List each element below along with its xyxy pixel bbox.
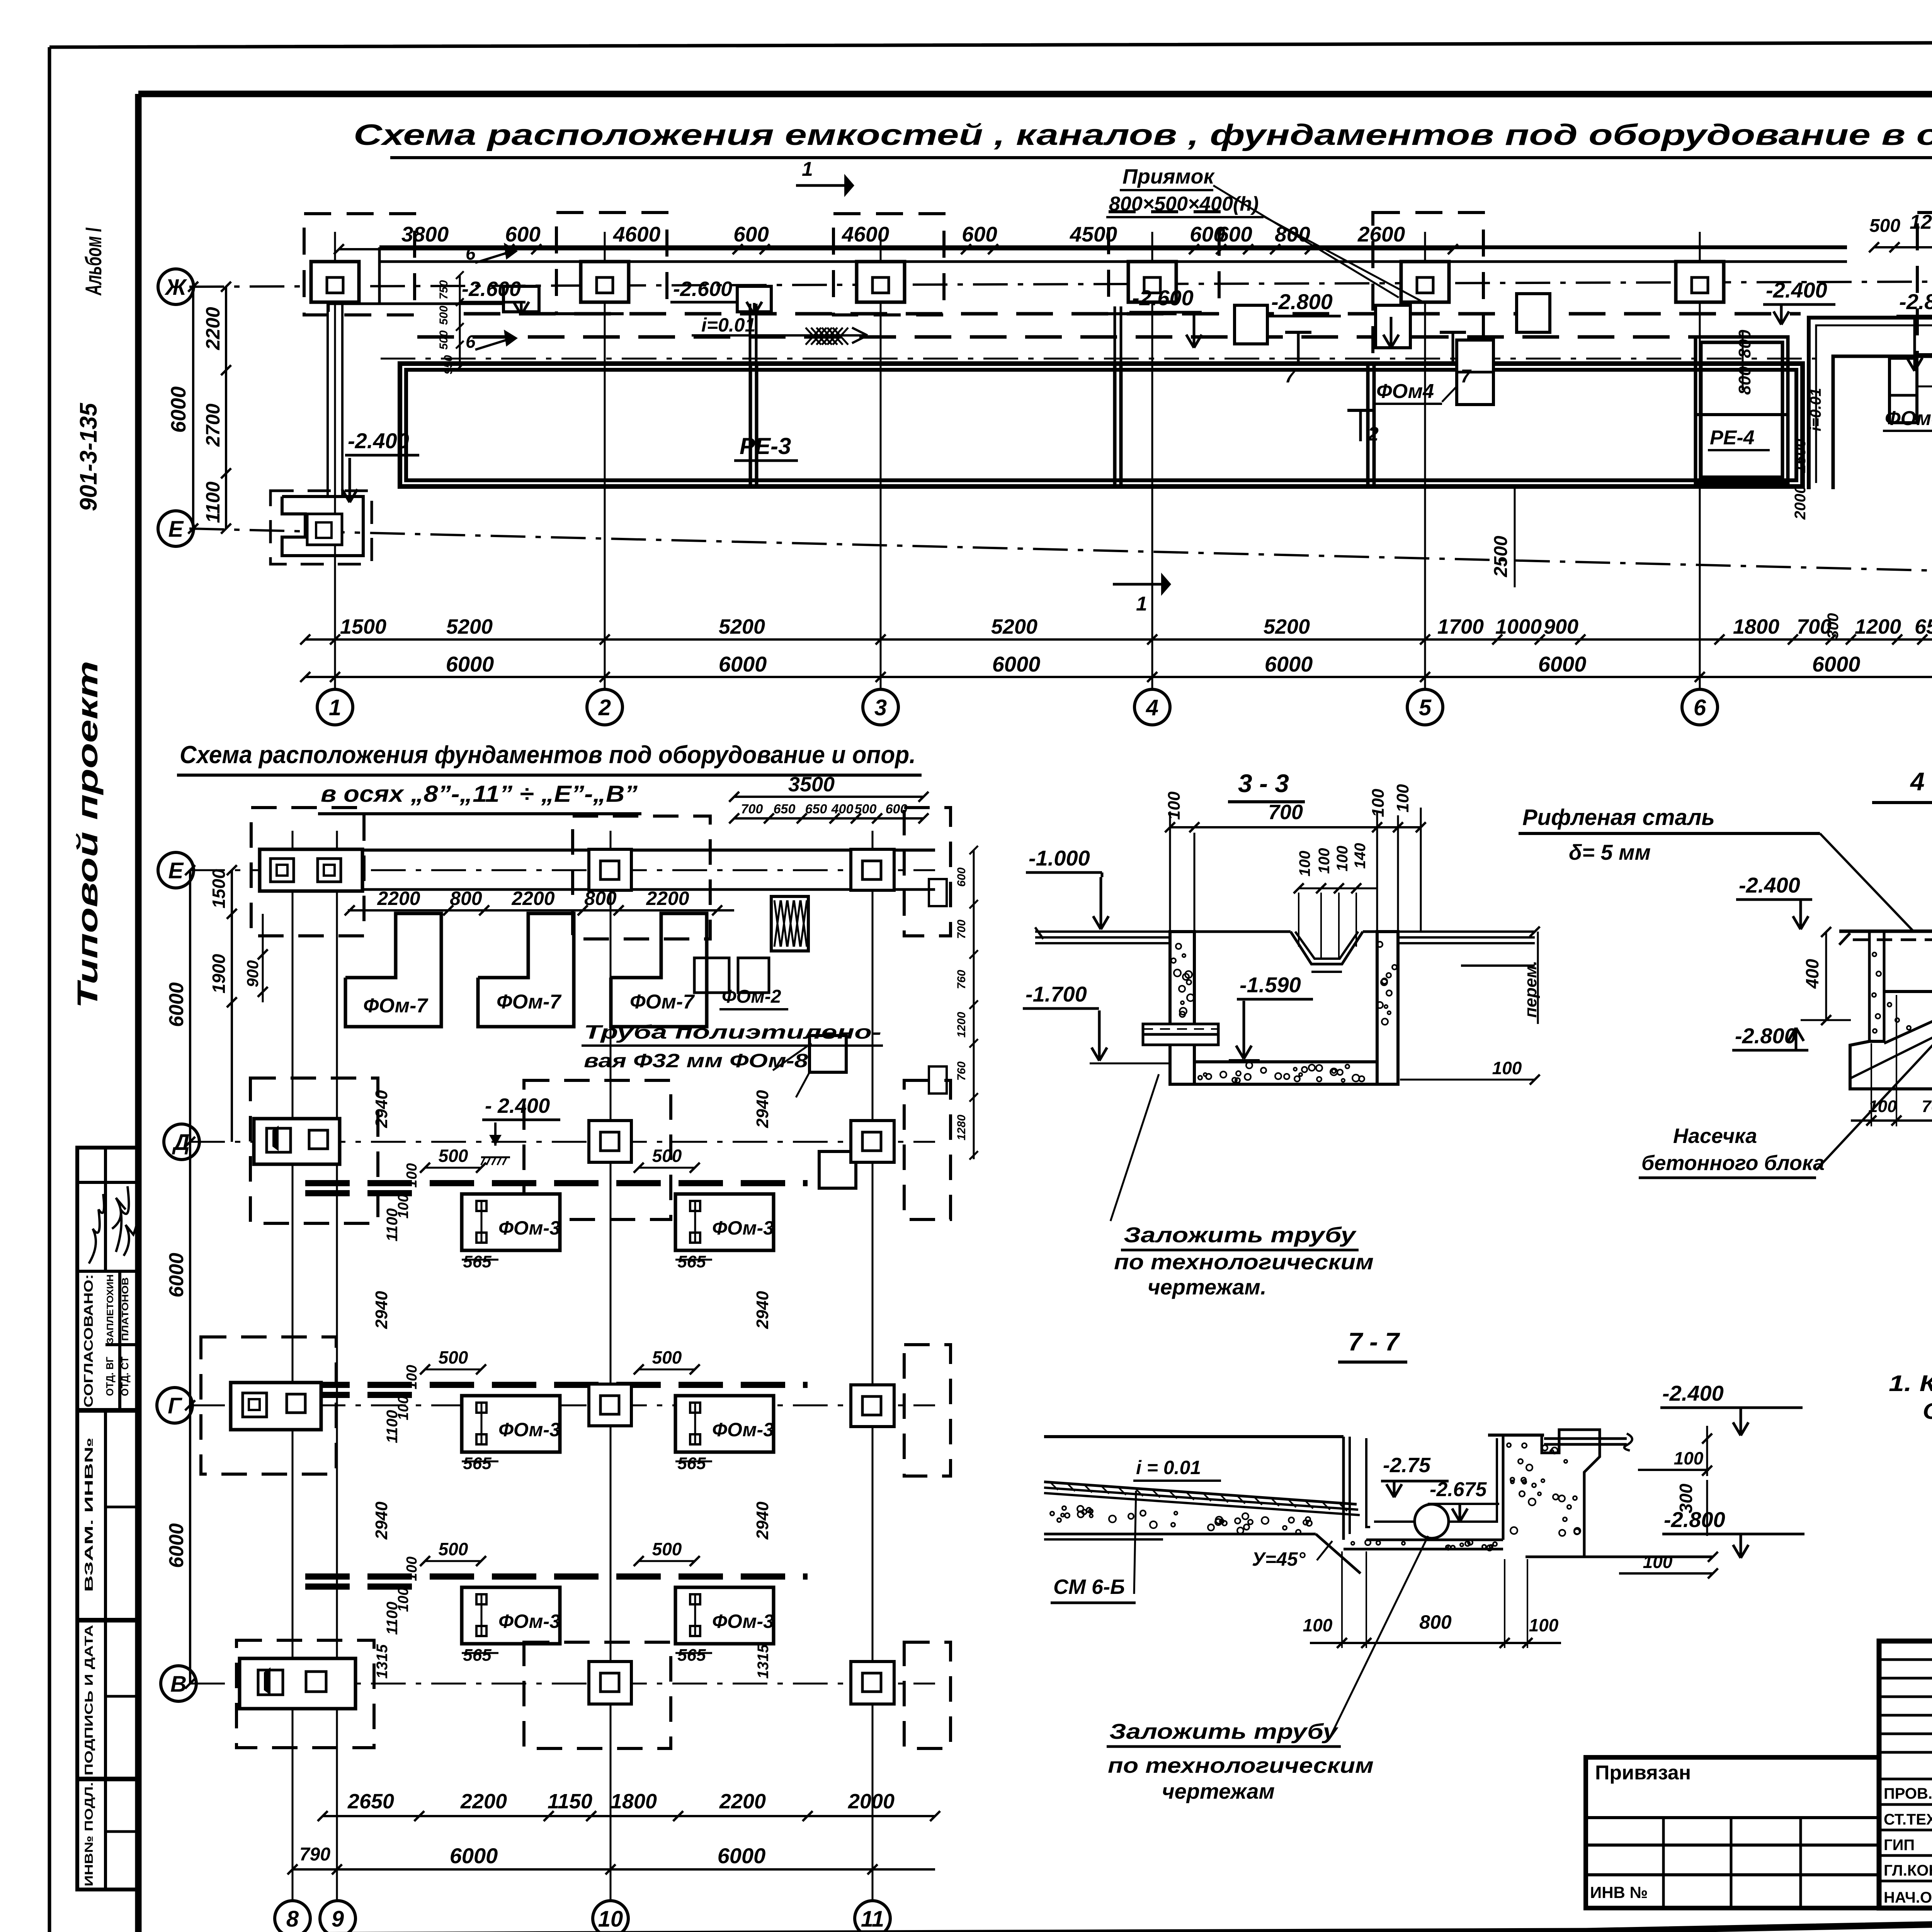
4-4 left wall <box>1869 931 1884 1041</box>
svg-text:100: 100 <box>1296 851 1313 877</box>
equipment dashed outline <box>833 214 944 315</box>
bottom dim row 1 of top plan <box>305 638 1932 641</box>
svg-text:565: 565 <box>677 1454 706 1473</box>
svg-text:700: 700 <box>955 920 968 939</box>
privyazan table <box>1586 1757 1879 1908</box>
svg-text:600: 600 <box>955 867 968 887</box>
svg-text:ФОм-7: ФОм-7 <box>363 995 428 1017</box>
4-4 bottom dims <box>1851 1119 1932 1122</box>
svg-text:2940: 2940 <box>372 1090 391 1128</box>
wall lines axis 1 down <box>327 304 329 497</box>
column footing axis 5 x Ж <box>1401 262 1449 302</box>
svg-text:800: 800 <box>1735 330 1754 358</box>
band along Е bottom plan <box>270 849 935 852</box>
svg-text:6: 6 <box>1694 695 1706 720</box>
svg-text:по технологическим: по технологическим <box>1108 1753 1374 1777</box>
svg-text:2200: 2200 <box>460 1790 507 1813</box>
svg-text:6000: 6000 <box>450 1844 498 1868</box>
svg-text:800: 800 <box>1735 366 1754 395</box>
dashed outline В-11 <box>904 1642 951 1748</box>
4-4 slope <box>1884 993 1932 1043</box>
svg-text:6: 6 <box>466 243 476 264</box>
svg-text:1280: 1280 <box>955 1114 968 1140</box>
footing В-11 <box>851 1662 894 1704</box>
footing Е-11 <box>851 849 894 890</box>
svg-text:ОТД. СТ: ОТД. СТ <box>119 1357 131 1396</box>
dashed outline Д-11 <box>904 1080 951 1219</box>
canal dashed lines below band <box>464 312 1801 316</box>
svg-text:900: 900 <box>1544 615 1578 638</box>
svg-text:100: 100 <box>404 1365 420 1389</box>
dashed outline Д-10 <box>524 1080 671 1219</box>
svg-text:1800: 1800 <box>1733 615 1779 638</box>
svg-text:2: 2 <box>598 695 611 720</box>
fom3 row at Г <box>305 1382 808 1388</box>
svg-text:ФОм-3: ФОм-3 <box>712 1611 774 1632</box>
svg-text:760: 760 <box>955 1061 968 1081</box>
7-7 leader to note <box>1330 1536 1428 1736</box>
dashed outline Г-11 <box>904 1345 951 1476</box>
svg-text:500: 500 <box>439 1146 468 1166</box>
section mark 6 <box>475 253 506 263</box>
3-3 concrete dots <box>1171 942 1397 1083</box>
svg-text:6000: 6000 <box>718 1844 766 1868</box>
bottom dim row 2 of top plan <box>305 676 1932 678</box>
tank centerline <box>381 358 1816 360</box>
svg-text:7: 7 <box>1461 366 1472 387</box>
svg-text:-2.800: -2.800 <box>1664 1507 1725 1532</box>
column footing axis 3 x Ж <box>857 262 905 302</box>
svg-text:ГЛ.КОНСТР: ГЛ.КОНСТР <box>1884 1862 1932 1879</box>
svg-text:-1.700: -1.700 <box>1026 982 1087 1006</box>
svg-text:2700: 2700 <box>202 403 224 447</box>
3-3 floor between walls <box>1194 930 1291 933</box>
footing Г 8/9 <box>231 1383 321 1430</box>
tank РЕ-4 <box>1696 337 1788 483</box>
equipment dashed outline <box>1917 213 1932 355</box>
footing Е 8/9 bottom plan <box>260 849 362 891</box>
top dimension 500 1200 right <box>1874 246 1932 248</box>
tank compartment walls to band <box>749 304 752 364</box>
svg-text:ФОм-3: ФОм-3 <box>498 1419 560 1440</box>
svg-text:4: 4 <box>1146 695 1158 720</box>
dashed outline Д-8/9 <box>250 1078 378 1223</box>
svg-text:6000: 6000 <box>165 982 188 1027</box>
column footing axis 2 x Ж <box>581 262 629 302</box>
svg-text:ФОм-7: ФОм-7 <box>630 991 695 1013</box>
svg-text:2940: 2940 <box>372 1502 391 1540</box>
block ФОм4 <box>1457 340 1493 405</box>
svg-text:6000: 6000 <box>992 652 1041 676</box>
section mark 1 top <box>796 184 844 187</box>
3-3 V notch <box>1291 932 1363 964</box>
3-3 top dims <box>1170 826 1421 828</box>
axis circle Ж <box>158 269 194 304</box>
svg-text:7 - 7: 7 - 7 <box>1348 1327 1400 1356</box>
svg-text:140: 140 <box>1352 843 1369 869</box>
svg-text:ФОм-6: ФОм-6 <box>1885 407 1932 430</box>
svg-text:500: 500 <box>855 802 877 816</box>
band left vertical edge <box>378 247 381 304</box>
svg-text:ИНВ№ ПОДЛ.: ИНВ№ ПОДЛ. <box>83 1782 95 1886</box>
svg-text:600: 600 <box>962 222 997 246</box>
equipment dashed outline Е-1 <box>270 491 372 564</box>
svg-text:4600: 4600 <box>613 222 661 246</box>
svg-text:-2.600: -2.600 <box>462 277 521 301</box>
svg-text:1200: 1200 <box>1910 211 1932 233</box>
pit priamok <box>1517 294 1550 332</box>
7-7 floor top line <box>1044 1435 1344 1438</box>
svg-text:2940: 2940 <box>753 1090 772 1128</box>
svg-text:2940: 2940 <box>372 1291 391 1329</box>
svg-text:Заложить трубу: Заложить трубу <box>1109 1719 1338 1743</box>
svg-text:100: 100 <box>1529 1615 1559 1635</box>
bottom plan vertical axis lines <box>292 831 294 1900</box>
7-7 pit <box>1342 1437 1345 1540</box>
footing Е-10 <box>589 849 631 890</box>
svg-text:ЗАПЛЕТОХИН: ЗАПЛЕТОХИН <box>105 1274 116 1344</box>
axis lines ЕДГВ <box>190 869 935 871</box>
svg-text:Е: Е <box>168 517 184 542</box>
svg-text:1100: 1100 <box>202 481 224 523</box>
footing Д 8/9 <box>254 1119 340 1164</box>
svg-text:100: 100 <box>1334 846 1351 872</box>
svg-text:1900: 1900 <box>209 954 229 993</box>
svg-text:800: 800 <box>1275 222 1310 246</box>
svg-text:300: 300 <box>1825 613 1842 639</box>
equipment dashed outline <box>1373 213 1483 364</box>
svg-text:Типовой проект: Типовой проект <box>71 661 104 1009</box>
svg-text:11: 11 <box>861 1906 884 1932</box>
svg-text:6000: 6000 <box>719 652 767 676</box>
svg-text:565: 565 <box>463 1252 492 1271</box>
3-3 floor right <box>1398 930 1535 933</box>
svg-text:400: 400 <box>1802 959 1822 989</box>
svg-text:700: 700 <box>741 802 763 816</box>
svg-text:РЕ-4: РЕ-4 <box>1710 427 1755 449</box>
pit priamok <box>737 286 771 312</box>
svg-text:-2.800: -2.800 <box>1735 1024 1796 1048</box>
svg-text:100: 100 <box>1492 1058 1522 1078</box>
svg-text:Рифленая сталь: Рифленая сталь <box>1522 805 1715 830</box>
svg-text:-2.800: -2.800 <box>1271 289 1333 314</box>
svg-text:Схема расположения фундаментов: Схема расположения фундаментов под обору… <box>180 741 916 769</box>
axis circle Е bottom plan <box>158 852 194 888</box>
left stamp table <box>77 1148 138 1889</box>
small block pair below <box>810 1036 846 1072</box>
svg-text:СТ.ТЕХНИК: СТ.ТЕХНИК <box>1884 1811 1932 1828</box>
dashed outline Е-10 <box>573 816 710 939</box>
svg-text:1700: 1700 <box>1437 615 1484 638</box>
svg-text:-2.400: -2.400 <box>348 429 409 453</box>
svg-text:500: 500 <box>439 1347 468 1367</box>
svg-text:1315: 1315 <box>755 1644 772 1679</box>
svg-text:ФОм-3: ФОм-3 <box>712 1217 774 1239</box>
footing Г-10 <box>589 1384 631 1426</box>
svg-text:2650: 2650 <box>347 1790 394 1813</box>
svg-text:2000: 2000 <box>848 1790 895 1813</box>
svg-text:6000: 6000 <box>1812 652 1861 676</box>
svg-text:-2.400: -2.400 <box>1739 873 1800 897</box>
axis circles bottom of top plan <box>317 689 353 725</box>
svg-text:2200: 2200 <box>377 888 420 909</box>
footing Д-10 <box>589 1121 631 1162</box>
svg-text:Схема расположения емкостей: Схема расположения емкостей , каналов , … <box>354 119 1932 151</box>
svg-text:ПРОВ.: ПРОВ. <box>1884 1785 1932 1802</box>
svg-text:1200: 1200 <box>1855 615 1901 638</box>
svg-text:ВЗАМ. ИНВ№: ВЗАМ. ИНВ№ <box>83 1437 95 1592</box>
svg-text:1100: 1100 <box>384 1208 401 1242</box>
svg-text:ФОм4: ФОм4 <box>1376 380 1434 403</box>
svg-text:-2.800: -2.800 <box>1899 289 1932 314</box>
svg-text:565: 565 <box>463 1646 492 1665</box>
svg-text:600: 600 <box>505 222 541 246</box>
svg-text:ИНВ №: ИНВ № <box>1590 1883 1648 1901</box>
3-3 slab <box>1194 1060 1377 1063</box>
svg-text:ФОм-3: ФОм-3 <box>498 1611 560 1632</box>
svg-text:565: 565 <box>677 1646 706 1665</box>
equipment dashed outline <box>304 214 415 315</box>
svg-text:ОТД. ВГ: ОТД. ВГ <box>104 1357 116 1396</box>
bottom plan small rects at right edge <box>929 879 947 906</box>
svg-text:В: В <box>170 1672 187 1697</box>
axis circle Г <box>157 1388 192 1423</box>
svg-text:δ= 5 мм: δ= 5 мм <box>1569 840 1651 864</box>
dashed outline Е-8/9 <box>251 808 364 936</box>
svg-text:100: 100 <box>1393 784 1412 813</box>
svg-text:800×500×400(h): 800×500×400(h) <box>1109 193 1259 215</box>
svg-text:-2.600: -2.600 <box>673 277 732 301</box>
svg-text:1500: 1500 <box>340 615 386 638</box>
column footing axis 1 x Ж <box>311 262 359 302</box>
footing Д-11 <box>851 1121 894 1162</box>
7-7 right concrete block <box>1503 1430 1600 1557</box>
pit -2.800 <box>1376 305 1410 348</box>
svg-text:-2.400: -2.400 <box>1662 1381 1724 1405</box>
svg-text:10: 10 <box>598 1906 623 1932</box>
svg-text:700: 700 <box>1268 801 1303 824</box>
svg-text:СМ 6-Б: СМ 6-Б <box>1053 1575 1125 1599</box>
svg-text:Труба полиэтилено-: Труба полиэтилено- <box>584 1021 881 1043</box>
tank РЕ-3 dividers <box>749 364 752 486</box>
svg-text:Привязан: Привязан <box>1595 1762 1691 1784</box>
svg-text:900: 900 <box>243 960 262 987</box>
top plan vertical axis lines <box>334 232 336 689</box>
svg-text:500: 500 <box>1869 216 1900 236</box>
tank РЕ-3 outer <box>400 364 1803 486</box>
svg-text:ПЛАТОНОВ: ПЛАТОНОВ <box>120 1277 131 1341</box>
4-4 walls dots <box>1872 947 1932 1033</box>
7-7 dotted underlayer left <box>1050 1506 1312 1534</box>
fom3 row between Д and Г <box>305 1180 808 1186</box>
title block names table <box>1879 1641 1932 1908</box>
section mark 1 bottom <box>1113 583 1161 586</box>
svg-text:ФОм-3: ФОм-3 <box>498 1217 560 1239</box>
svg-text:950: 950 <box>442 355 455 374</box>
svg-text:1: 1 <box>329 695 341 720</box>
blocks ФОм-7 x3 <box>345 913 441 1027</box>
axis circle Е <box>158 511 194 546</box>
svg-text:6: 6 <box>466 332 476 352</box>
equipment dashed outline <box>556 213 667 314</box>
equipment dashed outline <box>1109 212 1219 314</box>
7-7 bottom line left <box>1044 1533 1316 1536</box>
svg-text:НАЧ.ОТД: НАЧ.ОТД <box>1884 1889 1932 1906</box>
svg-text:700: 700 <box>1922 1097 1932 1116</box>
svg-text:2940: 2940 <box>753 1291 772 1329</box>
svg-text:100: 100 <box>1643 1552 1673 1572</box>
svg-text:Ж: Ж <box>164 275 187 300</box>
pit priamok <box>1235 305 1267 344</box>
column footing axis 4 x Ж <box>1128 262 1176 302</box>
svg-text:У=45°: У=45° <box>1252 1548 1306 1570</box>
svg-text:650: 650 <box>805 802 827 816</box>
svg-text:2200: 2200 <box>719 1790 766 1813</box>
7-7 sloped layers left <box>1044 1482 1357 1504</box>
7-7 pipe circle <box>1415 1504 1449 1538</box>
svg-text:по технологическим: по технологическим <box>1114 1250 1374 1274</box>
svg-text:3 - 3: 3 - 3 <box>1238 769 1289 798</box>
svg-text:-1.590: -1.590 <box>1240 973 1301 997</box>
svg-text:750: 750 <box>437 280 450 299</box>
svg-text:5200: 5200 <box>1264 615 1310 638</box>
footing Е-1 <box>282 497 363 556</box>
axis line Е <box>189 529 1932 580</box>
svg-text:565: 565 <box>677 1252 706 1271</box>
hatch mark on canal <box>806 328 848 345</box>
7-7 bottom dims <box>1310 1642 1561 1644</box>
svg-text:6000: 6000 <box>446 652 494 676</box>
4-4 bottom bulge <box>1850 1041 1932 1089</box>
svg-text:-2.675: -2.675 <box>1430 1478 1487 1501</box>
svg-text:2: 2 <box>1367 423 1379 445</box>
svg-text:650: 650 <box>774 802 796 816</box>
4-4 floor top line <box>1839 930 1932 933</box>
svg-text:790: 790 <box>299 1844 330 1865</box>
svg-text:6000: 6000 <box>1265 652 1313 676</box>
svg-text:3500: 3500 <box>788 773 835 796</box>
svg-text:100: 100 <box>1316 848 1333 874</box>
svg-text:2600: 2600 <box>1357 222 1405 246</box>
svg-text:7: 7 <box>1285 366 1296 387</box>
footing В 8/9 <box>240 1658 355 1709</box>
svg-text:400: 400 <box>831 802 854 816</box>
left dims 2200 2700 1100 <box>225 287 227 529</box>
svg-text:500: 500 <box>437 306 450 325</box>
svg-text:2940: 2940 <box>753 1502 772 1540</box>
svg-text:Е: Е <box>168 858 184 883</box>
dashed outline В-10 <box>524 1642 671 1748</box>
svg-text:-1.000: -1.000 <box>1029 846 1090 870</box>
svg-text:5200: 5200 <box>991 615 1037 638</box>
svg-text:100: 100 <box>1303 1615 1333 1635</box>
svg-text:-2.600: -2.600 <box>1132 286 1194 310</box>
svg-text:500: 500 <box>652 1146 682 1166</box>
svg-text:1. Канал в осях 1÷5 перек: 1. Канал в осях 1÷5 перекрыть деревянным… <box>1889 1371 1932 1396</box>
svg-text:2000: 2000 <box>1792 485 1809 520</box>
svg-text:бетонного блока: бетонного блока <box>1641 1151 1825 1175</box>
left vertical dimension 6000 <box>192 287 194 529</box>
small blocks right of Е row <box>694 958 729 993</box>
svg-text:1200: 1200 <box>955 1012 968 1037</box>
svg-text:Г: Г <box>168 1393 182 1418</box>
svg-text:4500: 4500 <box>1070 222 1117 246</box>
svg-text:чертежам.: чертежам. <box>1148 1275 1267 1299</box>
4-4 bottom inner <box>1884 990 1932 993</box>
svg-text:800: 800 <box>450 888 482 909</box>
svg-text:ФОм-3: ФОм-3 <box>712 1419 774 1440</box>
pit priamok <box>503 286 539 312</box>
svg-text:100: 100 <box>404 1163 420 1187</box>
svg-text:6000: 6000 <box>1538 652 1587 676</box>
svg-text:4 - 4: 4 - 4 <box>1910 767 1932 796</box>
svg-text:Насечка: Насечка <box>1673 1124 1757 1148</box>
svg-text:100: 100 <box>404 1556 420 1581</box>
svg-text:1000: 1000 <box>1495 615 1542 638</box>
svg-text:2500: 2500 <box>1491 536 1511 577</box>
svg-text:600: 600 <box>733 222 769 246</box>
svg-text:3800: 3800 <box>401 222 449 246</box>
dashed outline В-8/9 <box>236 1640 374 1748</box>
svg-text:9: 9 <box>332 1906 344 1932</box>
svg-text:СОГЛАСОВАНО:: СОГЛАСОВАНО: <box>82 1274 95 1408</box>
svg-text:500: 500 <box>652 1347 682 1367</box>
svg-text:2200: 2200 <box>202 307 224 350</box>
svg-text:Д: Д <box>172 1130 190 1155</box>
svg-text:i = 0.01: i = 0.01 <box>1136 1457 1201 1478</box>
svg-text:1100: 1100 <box>384 1602 401 1635</box>
svg-text:1100: 1100 <box>384 1410 401 1443</box>
axis circle Д <box>164 1124 199 1160</box>
3-3 leader to note <box>1111 1074 1159 1221</box>
svg-text:901-3-135: 901-3-135 <box>75 403 102 511</box>
svg-text:800: 800 <box>584 888 617 909</box>
svg-text:Заложить трубу: Заложить трубу <box>1124 1223 1357 1247</box>
svg-text:1: 1 <box>1136 593 1147 615</box>
svg-text:760: 760 <box>955 970 968 989</box>
section mark 2 near ФОм4 <box>1359 410 1362 441</box>
svg-text:в осях „8”-„11” ÷ „Е”-„В”: в осях „8”-„11” ÷ „Е”-„В” <box>321 781 638 807</box>
svg-text:5: 5 <box>1419 695 1432 720</box>
svg-text:6000: 6000 <box>165 1523 188 1568</box>
bottom plan right dim column <box>973 850 975 1159</box>
svg-text:5200: 5200 <box>719 615 765 638</box>
svg-text:ПОДПИСЬ И ДАТА: ПОДПИСЬ И ДАТА <box>83 1625 95 1776</box>
axis circles 8 9 10 11 <box>275 1901 310 1932</box>
svg-text:500: 500 <box>652 1539 682 1559</box>
svg-text:Альбом I: Альбом I <box>81 227 106 296</box>
svg-text:ФОм-7: ФОм-7 <box>497 991 561 1013</box>
svg-text:6000: 6000 <box>165 1253 188 1298</box>
fom3 row between Г and В <box>305 1573 808 1580</box>
svg-text:500: 500 <box>439 1539 468 1559</box>
3-3 pit walls <box>1170 932 1194 1084</box>
svg-text:6000: 6000 <box>167 386 190 433</box>
svg-text:2200: 2200 <box>646 888 689 909</box>
svg-text:i=0.01: i=0.01 <box>1807 388 1824 431</box>
stamp signatures <box>89 1194 104 1264</box>
bottom dims row 2 <box>293 1868 935 1871</box>
7-7 right steel plate lines <box>1544 1437 1627 1440</box>
svg-text:3: 3 <box>874 695 887 720</box>
svg-text:РЕ-3: РЕ-3 <box>740 433 791 459</box>
footing В-10 <box>589 1662 631 1704</box>
svg-text:600: 600 <box>1217 222 1252 246</box>
svg-text:1: 1 <box>802 158 813 180</box>
svg-text:Объём древесины – 1.65 м³.: Объём древесины – 1.65 м³. <box>1923 1399 1932 1424</box>
svg-text:1500: 1500 <box>1792 439 1809 473</box>
svg-text:8: 8 <box>286 1906 299 1932</box>
